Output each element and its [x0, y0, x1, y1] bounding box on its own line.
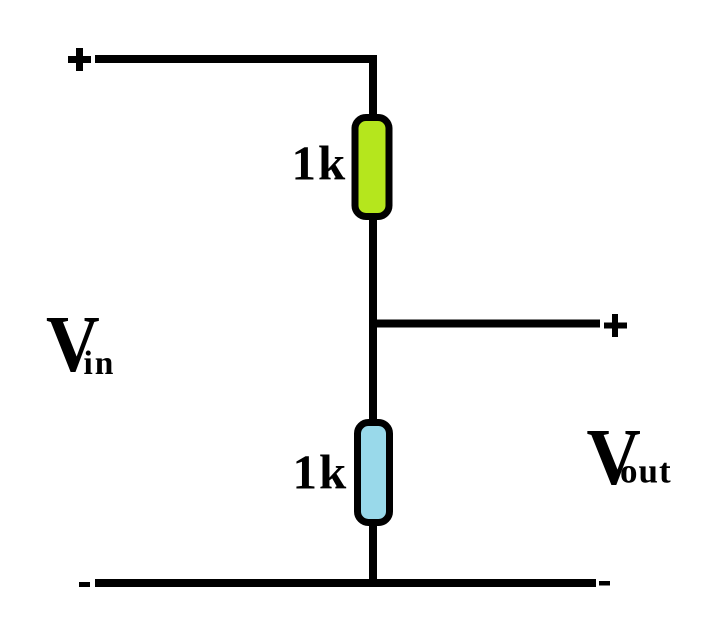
wire from Vin+ to R1 top [95, 59, 373, 118]
svg-text:1k: 1k [293, 445, 349, 500]
resistor R2 1k (lower, light turquoise body) [358, 423, 390, 523]
label Vout [587, 413, 672, 502]
wire bottom return rail [95, 579, 596, 587]
wire from R1 bottom to R2 top (through output node) [369, 218, 377, 421]
svg-text:1k: 1k [292, 136, 348, 191]
resistor R1 1k (upper, lime body) [355, 118, 389, 217]
svg-text:in: in [84, 345, 116, 382]
wire output tap to Vout+ [373, 320, 600, 328]
wire from R2 bottom to ground rail [369, 522, 377, 583]
svg-text:out: out [620, 452, 672, 491]
plus terminal (Vout positive) [604, 314, 627, 337]
label Vin [46, 300, 115, 389]
minus terminal (left, Vin negative) [79, 582, 90, 587]
plus terminal (Vin positive) [68, 48, 91, 71]
node: output tap junction [369, 320, 377, 328]
minus terminal (right, Vout negative) [599, 581, 610, 586]
